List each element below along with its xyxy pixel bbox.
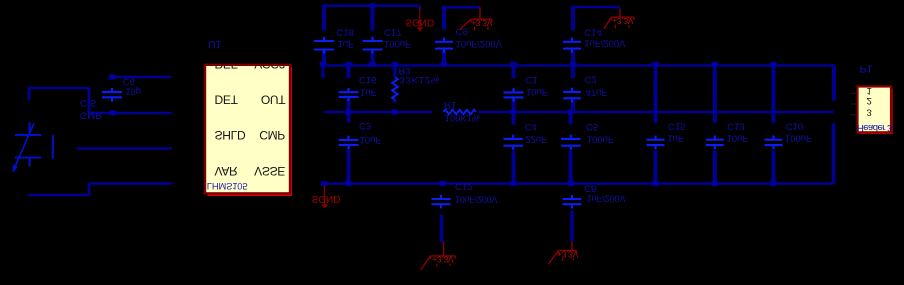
op-amp U1 LHMS105 body (205, 65, 290, 194)
svg-text:C1: C1 (525, 74, 537, 85)
wire: bus1 VCC rail (323, 64, 834, 67)
wire: VAR pin wire with jog (28, 194, 89, 197)
svg-text:100uF: 100uF (785, 132, 812, 143)
power flag +3.3V (top, C14) (619, 9, 621, 17)
wire: REF pin wire (112, 76, 172, 79)
wire: bus3 GND rail (324, 182, 834, 185)
wire: top rail A (324, 4, 420, 7)
svg-text:OUT: OUT (261, 93, 286, 107)
power flag SGND (bottom) (324, 186, 326, 205)
svg-text:1: 1 (867, 85, 872, 96)
svg-text:SGND: SGND (405, 16, 434, 27)
wire: C8 bottom column (570, 211, 574, 242)
connector P1 body shadow (860, 89, 893, 134)
junction dot antenna net (109, 74, 115, 79)
svg-text:C4: C4 (525, 121, 537, 132)
svg-text:SHLD: SHLD (215, 128, 246, 142)
svg-text:10uF: 10uF (360, 134, 382, 145)
wire: C4 column (512, 112, 516, 125)
wire: top rail B (444, 6, 480, 9)
svg-text:VAR: VAR (215, 164, 239, 178)
P1 pin stubs (851, 92, 857, 94)
wire: SHLD pin wire (77, 147, 172, 150)
wire: bus3 right riser (832, 123, 836, 183)
power flag +3.3V (bottom, C8) (571, 242, 573, 251)
wire: C1 column (512, 66, 516, 79)
capacitor C9 (435, 41, 453, 43)
wire: C14 column lower (571, 51, 575, 67)
svg-text:10uF/200V: 10uF/200V (455, 195, 497, 205)
svg-text:+3.3V: +3.3V (432, 255, 454, 265)
svg-text:C17: C17 (384, 27, 401, 38)
capacitor C15 (647, 139, 665, 141)
capacitor C17 (363, 40, 383, 42)
trimmer antenna C5 plates (15, 134, 41, 136)
wire: R3 top stub (393, 66, 396, 78)
wire: bus2 OUT rail (right of R1) (478, 111, 834, 114)
op-amp U1 LHMS105 body shadow (208, 67, 293, 196)
svg-text:+3.3V: +3.3V (612, 16, 634, 26)
svg-text:C16: C16 (359, 74, 376, 85)
wire: GMR/DET pin wire (89, 112, 172, 115)
svg-text:LHMS105: LHMS105 (207, 181, 248, 192)
capacitor C2 (563, 91, 581, 93)
capacitor C3 (339, 139, 359, 141)
wire: C17 column upper (371, 5, 375, 31)
svg-text:C14: C14 (584, 26, 601, 37)
svg-text:C3: C3 (359, 120, 371, 131)
svg-text:15p: 15p (125, 86, 141, 97)
junction dot rail A / C17 (370, 3, 376, 8)
svg-text:C18: C18 (337, 27, 354, 38)
wire: C13 column (713, 66, 717, 122)
U1 pin name REF (215, 57, 286, 71)
power flag +3.3V (top, C9) (479, 7, 481, 19)
capacitor C6 (15p series) (102, 91, 122, 93)
wire: C2 column (571, 66, 575, 79)
svg-text:C13: C13 (727, 120, 744, 131)
svg-text:U1: U1 (208, 38, 222, 50)
svg-text:22uF: 22uF (525, 134, 547, 145)
svg-text:1uF: 1uF (338, 38, 355, 49)
svg-text:5: 5 (91, 97, 96, 108)
capacitor C4 (503, 138, 523, 140)
wire: C18 column lower (322, 52, 326, 67)
svg-text:CMP: CMP (259, 128, 285, 142)
power flag SGND (top) (418, 6, 421, 9)
svg-text:C2: C2 (585, 73, 597, 84)
svg-text:C15: C15 (668, 120, 685, 131)
svg-text:100uF: 100uF (384, 38, 411, 49)
svg-text:VSSE: VSSE (254, 164, 285, 178)
svg-text:+3.3V: +3.3V (557, 249, 579, 259)
junction dots bus1 (320, 62, 327, 67)
junction dots bus2 (346, 109, 352, 114)
svg-text:SGND: SGND (312, 193, 341, 204)
svg-text:C10: C10 (786, 120, 803, 131)
svg-text:1uF: 1uF (360, 86, 377, 97)
svg-text:33K12%: 33K12% (400, 74, 441, 85)
capacitor C18 (314, 40, 334, 42)
svg-text:C8: C8 (584, 182, 596, 193)
svg-text:100K1%: 100K1% (445, 113, 480, 123)
svg-text:2: 2 (867, 95, 872, 106)
wire: C17 column lower (371, 52, 375, 67)
wire: C14 column upper (571, 6, 575, 31)
wire: C16 column (347, 66, 351, 79)
wire: bus2 OUT rail (left of R1) (324, 111, 432, 114)
capacitor C14 (563, 41, 581, 43)
junction dot GMR net (110, 110, 116, 115)
svg-text:10uF/200V: 10uF/200V (456, 38, 503, 49)
wire: C15 column (654, 66, 658, 122)
capacitor C8 (563, 198, 582, 200)
capacitor C5 (filter) (561, 138, 581, 140)
resistor R3 (392, 78, 398, 100)
svg-text:3: 3 (867, 106, 872, 117)
svg-text:1uF: 1uF (667, 132, 684, 143)
capacitor C13 (706, 139, 724, 141)
capacitor C10 (765, 139, 783, 141)
svg-text:R1: R1 (444, 99, 456, 110)
svg-text:10uF: 10uF (727, 132, 749, 143)
wire: C12 bottom column (440, 215, 444, 243)
svg-text:C12: C12 (455, 181, 472, 192)
svg-text:P1: P1 (860, 63, 873, 75)
wire: VCC pin stub with arrow (322, 66, 325, 76)
wire: antenna top L-wire (28, 87, 31, 101)
resistor R1 (444, 110, 476, 114)
svg-text:Header 3: Header 3 (857, 122, 892, 133)
svg-text:10uF: 10uF (526, 86, 548, 97)
wire: bus1 right corner down to header pin1 (832, 66, 836, 101)
trimmer antenna electrode bar (52, 135, 54, 160)
svg-text:100uF: 100uF (587, 134, 614, 145)
svg-text:C5: C5 (586, 121, 598, 132)
svg-text:1uF/200V: 1uF/200V (584, 37, 626, 48)
svg-text:C: C (80, 97, 87, 108)
resistor R3 bottom lead arrow (394, 100, 396, 101)
wire: C3 column (347, 112, 351, 122)
svg-text:C6: C6 (123, 75, 135, 86)
wire: C5 column (569, 112, 573, 125)
wire: C18 column upper (322, 5, 326, 31)
trimmer antenna stubs (29, 122, 31, 135)
svg-text:DET: DET (215, 93, 239, 107)
wire: C9 column lower (442, 51, 446, 67)
wire: C9 column upper (442, 6, 446, 30)
wire: C10 column (772, 66, 776, 122)
capacitor C1 (504, 91, 524, 93)
svg-text:+3.3V: +3.3V (471, 18, 493, 28)
trimmer antenna arrow (13, 124, 34, 172)
capacitor C16 (339, 91, 359, 93)
power flag +3.3V (bottom, C12) (443, 242, 445, 256)
svg-text:47uF: 47uF (586, 87, 608, 98)
junction dots bus3 (321, 181, 327, 186)
svg-text:GMR: GMR (80, 109, 102, 120)
capacitor C12 (432, 198, 451, 200)
svg-text:1uF/200V: 1uF/200V (587, 194, 626, 204)
wire: top rail C (572, 6, 621, 9)
connector P1 body (858, 87, 892, 133)
